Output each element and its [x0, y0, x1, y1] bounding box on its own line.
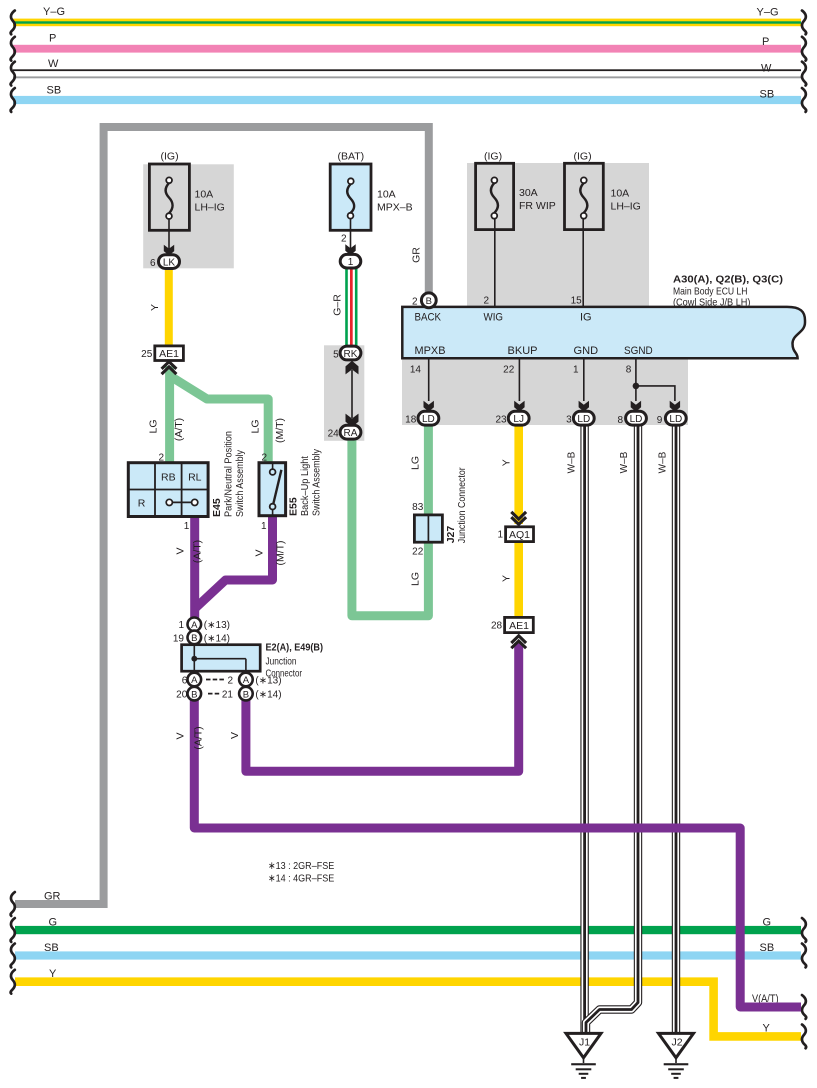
svg-text:B: B [191, 689, 197, 700]
note *14 : 4GR-FSE [268, 873, 334, 885]
wire ECU BKUP pin 22 to 23 LJ [503, 360, 519, 402]
svg-text:R: R [138, 498, 146, 510]
label Park/Neutral Position [223, 431, 235, 517]
svg-text:J2: J2 [671, 1037, 682, 1049]
svg-text:(∗14): (∗14) [255, 690, 281, 701]
connector 18 LD [405, 411, 439, 425]
svg-text:23: 23 [495, 414, 507, 425]
connector pin 19 B (*14) [173, 631, 230, 645]
svg-text:25: 25 [141, 349, 153, 360]
svg-text:(A/T): (A/T) [173, 418, 185, 441]
dashes between pin 20 B and pin 21 B [208, 693, 219, 695]
svg-text:LG: LG [148, 419, 160, 433]
label V (B21 wire) [229, 732, 241, 739]
svg-text:AE1: AE1 [159, 348, 179, 360]
svg-text:3: 3 [566, 414, 572, 425]
svg-text:2: 2 [412, 296, 418, 307]
pin 1 label E45 [184, 521, 190, 532]
svg-text:B: B [191, 633, 197, 644]
dashes between pin 6 A and pin 2 A [206, 679, 224, 681]
svg-text:A: A [191, 675, 198, 686]
svg-text:G–R: G–R [332, 294, 344, 316]
svg-text:5: 5 [333, 349, 339, 360]
connector 28 AE1 [491, 617, 533, 632]
bus G left squiggle [11, 918, 15, 942]
switch E45 Park/Neutral Position Switch Assembly [128, 463, 208, 517]
arrowhead into 9 LD [670, 401, 680, 412]
svg-text:V: V [174, 547, 186, 554]
svg-text:P: P [49, 32, 56, 44]
connector 5 RK [333, 346, 361, 360]
svg-text:Switch Assembly: Switch Assembly [234, 449, 246, 517]
wire V from E55 pin 1 merging into E45 wire [196, 515, 273, 608]
svg-text:AE1: AE1 [509, 620, 529, 632]
connector pin 20 B [176, 687, 201, 701]
svg-text:10A: 10A [611, 187, 630, 199]
svg-text:2: 2 [227, 675, 233, 686]
svg-text:15: 15 [571, 295, 583, 306]
bus Y bottom (turns down and right) [15, 968, 801, 1037]
connector 24 RA [328, 425, 361, 439]
svg-text:MPX–B: MPX–B [377, 202, 413, 214]
svg-text:LD: LD [669, 414, 682, 425]
wire fuse LH-IG right to ECU pin 15 IG [582, 219, 584, 306]
svg-text:E2(A), E49(B): E2(A), E49(B) [266, 641, 324, 653]
label Back-Up Light [299, 456, 311, 516]
svg-text:14: 14 [410, 364, 422, 375]
svg-text:LH–IG: LH–IG [195, 202, 225, 214]
svg-text:1: 1 [178, 620, 184, 631]
svg-text:2: 2 [261, 453, 267, 464]
label Y lower [501, 575, 513, 582]
junction connector J27 [414, 515, 442, 542]
svg-text:21: 21 [222, 690, 234, 701]
svg-text:RB: RB [161, 471, 176, 483]
bus SB left squiggle [11, 88, 15, 112]
arrowhead into 8 LD [631, 401, 641, 412]
svg-text:GND: GND [574, 345, 599, 357]
svg-text:IG: IG [580, 312, 592, 324]
label V (M/T) below E55 [254, 540, 287, 565]
svg-text:Y: Y [49, 968, 57, 980]
svg-text:(M/T): (M/T) [274, 540, 286, 565]
bus GR left squiggle [11, 892, 15, 916]
bus SB right squiggle [802, 88, 806, 112]
svg-text:RA: RA [344, 428, 358, 439]
svg-text:W: W [48, 58, 59, 70]
bus G [15, 916, 801, 934]
svg-text:SB: SB [44, 942, 59, 954]
svg-text:6: 6 [182, 675, 188, 686]
svg-text:1: 1 [184, 521, 190, 532]
label J27 [445, 526, 457, 544]
ground J1 [566, 1033, 601, 1079]
bus SB [13, 84, 801, 104]
connector link RK to RA (mating arrows) [346, 361, 359, 428]
svg-text:V: V [229, 732, 241, 739]
pin 83 label J27 [412, 502, 424, 513]
svg-text:A30(A), Q2(B), Q3(C): A30(A), Q2(B), Q3(C) [673, 273, 783, 285]
arrowhead into 18 LD [424, 401, 434, 412]
fuse 10A LH-IG right (IG) [565, 150, 641, 229]
svg-text:BKUP: BKUP [508, 345, 538, 357]
label V(A/T) right bus [752, 993, 779, 1005]
svg-text:J1: J1 [579, 1037, 590, 1049]
svg-text:Park/Neutral Position: Park/Neutral Position [223, 431, 235, 517]
svg-text:1: 1 [497, 529, 503, 540]
svg-text:LH–IG: LH–IG [611, 201, 641, 213]
svg-text:9: 9 [657, 415, 663, 426]
svg-text:(IG): (IG) [161, 150, 179, 162]
svg-text:RL: RL [188, 471, 202, 483]
svg-text:Y: Y [501, 575, 513, 582]
svg-text:LD: LD [630, 414, 643, 425]
svg-text:30A: 30A [519, 187, 538, 199]
label LG lower (below J27) [410, 572, 422, 586]
bus P right squiggle [802, 37, 806, 61]
svg-text:A: A [243, 675, 250, 686]
svg-text:∗13 : 2GR–FSE: ∗13 : 2GR–FSE [268, 860, 334, 872]
label V (long wire) [175, 726, 205, 749]
bus G right squiggle [802, 918, 806, 942]
svg-text:V: V [254, 549, 266, 556]
fuse 10A LH-IG (IG) [149, 150, 224, 230]
svg-text:1: 1 [261, 521, 267, 532]
chevron below 25 AE1 [162, 362, 177, 374]
wire LG from 24 RA down, across, up to 18 LD through J27 [352, 424, 429, 616]
label E55 [288, 497, 300, 516]
svg-text:B: B [426, 296, 432, 307]
svg-text:GR: GR [44, 890, 61, 902]
svg-text:1: 1 [573, 364, 579, 375]
wire W-B from ECU SGND (9 LD) to ground J2 [672, 424, 680, 1033]
label G-R [332, 294, 344, 316]
wire W-B from ECU SGND (8 LD) jogging to ground J1 [586, 424, 638, 1033]
svg-text:Back–Up Light: Back–Up Light [299, 456, 311, 516]
svg-text:(BAT): (BAT) [338, 150, 365, 162]
wire ECU MPXB pin 14 to 18 LD [410, 360, 429, 402]
label E45 [211, 498, 223, 517]
arrowhead into connector 1 [345, 244, 355, 255]
wire Y from AQ1 to 28 AE1 [514, 541, 523, 618]
wire V from E45 pin 1 down to E2 pin 1(A) [190, 516, 199, 618]
bus Y left squiggle [11, 970, 15, 994]
connector 23 LJ [495, 411, 529, 425]
bus P left squiggle [11, 37, 15, 61]
pin 2 label (WIG) [483, 295, 489, 306]
svg-text:E45: E45 [211, 498, 223, 517]
svg-text:SB: SB [47, 84, 62, 96]
chevron above 1 AQ1 (pointing down) [511, 512, 526, 524]
svg-text:2: 2 [158, 453, 164, 464]
connector 3 LD [566, 411, 594, 425]
pin 15 label (IG) [571, 295, 583, 306]
label Y upper [501, 459, 513, 466]
svg-text:LG: LG [250, 419, 262, 433]
fuse 10A MPX-B (BAT) [330, 150, 412, 230]
svg-text:28: 28 [491, 620, 503, 631]
svg-text:8: 8 [626, 364, 632, 375]
svg-text:W–B: W–B [567, 451, 578, 473]
svg-text:W: W [761, 62, 772, 74]
svg-text:LK: LK [163, 257, 176, 268]
svg-text:24: 24 [328, 428, 340, 439]
label W-B wire 1 [567, 451, 578, 473]
wire fuse MPX-B to connector 1 [350, 219, 352, 250]
svg-text:(∗13): (∗13) [204, 620, 230, 631]
svg-text:GR: GR [411, 247, 423, 263]
pin 2 label E45 [158, 453, 164, 464]
svg-text:18: 18 [405, 414, 417, 425]
svg-text:Switch Assembly: Switch Assembly [311, 448, 323, 516]
svg-text:(M/T): (M/T) [274, 418, 286, 443]
svg-text:10A: 10A [377, 189, 396, 201]
bus W [13, 58, 801, 79]
connector 1 (MPX-B) [340, 254, 361, 268]
pin 2 label (fuse MPX-B) [341, 233, 347, 244]
svg-text:SGND: SGND [624, 345, 653, 357]
svg-text:AQ1: AQ1 [509, 529, 530, 541]
arrowhead into 6 LK [164, 245, 174, 256]
svg-text:22: 22 [412, 547, 424, 558]
svg-text:FR WIP: FR WIP [519, 200, 556, 212]
svg-text:Y: Y [763, 1022, 771, 1034]
ground J2 [659, 1033, 694, 1079]
bus SB bottom left squiggle [11, 944, 15, 968]
connector 6 LK [150, 255, 180, 269]
junction connector E2(A), E49(B) [182, 641, 323, 679]
svg-text:W–B: W–B [619, 451, 630, 473]
svg-text:Junction Connector: Junction Connector [456, 467, 468, 543]
bus P [13, 32, 801, 52]
wire ECU GND pin 1 to 3 LD [573, 360, 584, 402]
label W-B wire 3 [658, 451, 669, 473]
bus SB bottom right squiggle [802, 944, 806, 968]
wire fuse LH-IG to 6 LK [168, 219, 170, 250]
wire W-B from ECU GND (3 LD) to ground J1 [580, 424, 588, 1033]
svg-text:LD: LD [577, 414, 590, 425]
bus Y-G right squiggle [802, 11, 806, 35]
connector pin 1 A (*13) [178, 618, 230, 632]
label Y (LK wire) [149, 304, 161, 311]
bus Y-G [13, 6, 801, 26]
arrowhead into 3 LD [579, 401, 589, 412]
svg-text:6: 6 [150, 258, 156, 269]
svg-text:Y–G: Y–G [757, 7, 779, 19]
svg-text:BACK: BACK [415, 312, 442, 324]
fuse 30A FR WIP (IG) [476, 150, 556, 229]
svg-text:Junction: Junction [266, 655, 297, 667]
label Junction Connector (J27) [456, 467, 468, 543]
label V (A/T) below E45 [174, 540, 203, 563]
pin 1 label E55 [261, 521, 267, 532]
svg-text:LG: LG [410, 456, 422, 470]
pin 2 label E55 [261, 453, 267, 464]
label GR (rotated) on vertical gray wire [411, 247, 423, 263]
bus Y right squiggle [802, 1025, 806, 1049]
label LG (A/T) [148, 418, 185, 441]
svg-text:(IG): (IG) [484, 150, 502, 162]
wire V from E2 pin 21(B) to 28 AE1 [246, 643, 519, 771]
svg-text:E55: E55 [288, 497, 300, 516]
svg-text:SB: SB [760, 942, 775, 954]
svg-text:(A/T): (A/T) [193, 726, 205, 749]
svg-text:RK: RK [344, 349, 358, 360]
connector 1 AQ1 [497, 527, 533, 542]
svg-text:10A: 10A [195, 188, 214, 200]
svg-text:B: B [243, 689, 249, 700]
wire LG from AE1 down to E45 pin 2 [165, 366, 174, 463]
svg-text:1: 1 [348, 257, 354, 268]
svg-text:LG: LG [410, 572, 422, 586]
wire ECU SGND pin 8 with branch [626, 360, 675, 402]
J/B shading panel behind fuses FR WIP / LH-IG [467, 163, 649, 307]
ECU A30(A), Q2(B), Q3(C) Main Body ECU LH band [402, 273, 805, 358]
pin 22 label J27 [412, 547, 424, 558]
label Switch Assembly (E45) [234, 449, 246, 517]
wire fuse FR WIP to ECU pin 2 WIG [494, 219, 496, 306]
svg-text:Y: Y [501, 459, 513, 466]
svg-text:Y: Y [149, 304, 161, 311]
wire Y from 23 LJ to 1 AQ1 [514, 424, 523, 524]
svg-text:Y–G: Y–G [43, 6, 65, 18]
label LG (M/T) [250, 418, 286, 443]
bus V(A/T) right squiggle [802, 995, 806, 1019]
connector pin 6 A [182, 673, 201, 687]
svg-text:22: 22 [503, 364, 515, 375]
svg-text:MPXB: MPXB [415, 345, 446, 357]
svg-text:(IG): (IG) [574, 150, 592, 162]
bus W left squiggle [11, 62, 15, 86]
label LG upper (LD to J27) [410, 456, 422, 470]
J/B shading panel behind fuse LH-IG [143, 164, 234, 268]
svg-text:∗14 : 4GR–FSE: ∗14 : 4GR–FSE [268, 873, 334, 885]
svg-text:19: 19 [173, 633, 185, 644]
arrowhead into 23 LJ [514, 401, 524, 412]
chevron below 28 AE1 [511, 636, 526, 648]
svg-text:2: 2 [483, 295, 489, 306]
label W-B wire 2 [619, 451, 630, 473]
connector 9 LD [657, 411, 686, 426]
svg-text:(∗13): (∗13) [255, 675, 281, 686]
svg-text:(A/T): (A/T) [192, 540, 204, 563]
wire G-R from connector 1 to 5 RK [345, 266, 357, 347]
svg-text:SB: SB [760, 88, 775, 100]
svg-text:LJ: LJ [513, 414, 524, 425]
connector pin 21 B (*14) [222, 687, 282, 701]
bus Y-G left squiggle [11, 11, 15, 35]
connector pin 2 A (*13) [227, 673, 281, 687]
svg-text:P: P [762, 36, 769, 48]
bus W right squiggle [802, 62, 806, 86]
label Switch Assembly (E55) [311, 448, 323, 516]
svg-text:(∗14): (∗14) [204, 633, 230, 644]
connector 8 LD [617, 411, 646, 426]
wire GR (gray) from left GR bus up, across top, down to ECU pin 2(B) [15, 127, 429, 904]
svg-text:G: G [763, 917, 772, 929]
svg-text:83: 83 [412, 502, 424, 513]
svg-text:(Cowl Side J/B LH): (Cowl Side J/B LH) [673, 296, 751, 308]
svg-text:LD: LD [422, 414, 435, 425]
wire LG branch from AE1 to E55 pin 2 [170, 376, 268, 463]
junction dot SGND [633, 383, 640, 390]
svg-text:8: 8 [617, 415, 623, 426]
shading panel behind RK/RA connectors [324, 345, 364, 441]
label GR at left bus end [44, 890, 61, 902]
wire V(A/T) long run from E2 pin 20(B) to right bus [194, 700, 801, 1008]
svg-text:2: 2 [341, 233, 347, 244]
svg-text:V: V [175, 732, 187, 739]
svg-text:G: G [49, 916, 58, 928]
svg-text:W–B: W–B [658, 451, 669, 473]
bus SB bottom [15, 942, 801, 960]
connector 25 AE1 [141, 346, 183, 361]
svg-text:WIG: WIG [484, 312, 504, 324]
connector pin 2 B (BACK) [412, 293, 436, 308]
note *13 : 2GR-FSE [268, 860, 334, 872]
switch E55 Back-Up Light Switch Assembly [259, 463, 286, 516]
wire Y from 6 LK to 25 AE1 [165, 266, 173, 347]
svg-text:20: 20 [176, 690, 188, 701]
shading panel below ECU [402, 360, 688, 426]
